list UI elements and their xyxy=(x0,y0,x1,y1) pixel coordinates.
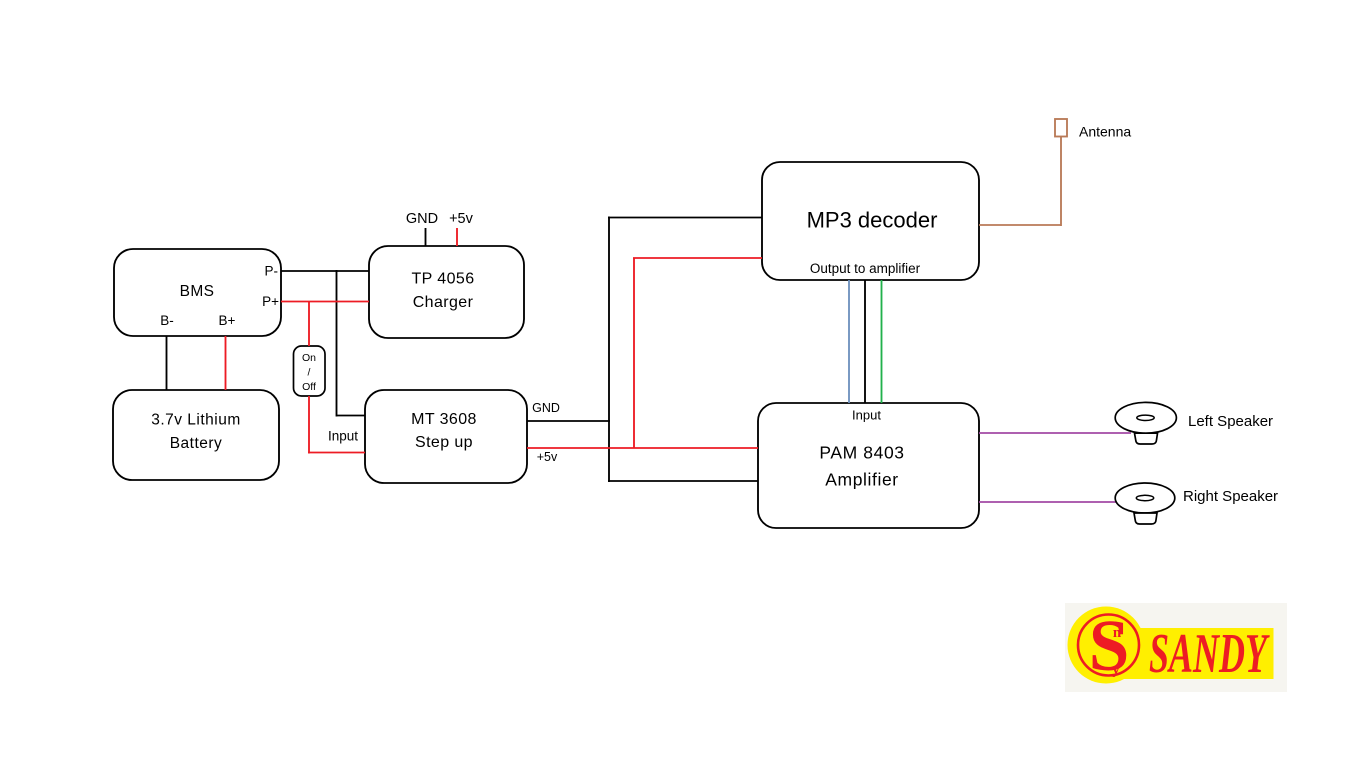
wire P- branch into MT3608 xyxy=(337,415,366,417)
svg-text:GND: GND xyxy=(406,211,438,227)
wire GND vertical bus xyxy=(608,217,610,483)
wire P- : BMS to TP4056 xyxy=(281,270,369,272)
svg-text:MT 3608: MT 3608 xyxy=(411,411,477,428)
svg-text:B-: B- xyxy=(160,313,174,328)
svg-text:3.7v Lithium: 3.7v Lithium xyxy=(151,412,241,429)
svg-text:Input: Input xyxy=(328,429,358,444)
block 3.7v Lithium Battery xyxy=(113,390,279,480)
wire antenna horizontal (brown) xyxy=(979,224,1061,226)
svg-text:Amplifier: Amplifier xyxy=(825,470,898,490)
svg-text:n: n xyxy=(1113,625,1122,641)
switch On/Off SW1 xyxy=(294,346,326,396)
wire +5v vertical branch (red) xyxy=(633,258,635,449)
wire P+ branch down to switch xyxy=(308,302,310,347)
svg-text:+5v: +5v xyxy=(537,450,558,464)
svg-text:MP3 decoder: MP3 decoder xyxy=(807,208,938,233)
wire B- : BMS to battery xyxy=(166,336,168,390)
wire to right speaker (purple) xyxy=(979,501,1131,503)
wire B+ : BMS to battery (red) xyxy=(225,336,227,390)
svg-text:GND: GND xyxy=(532,401,560,415)
svg-text:Off: Off xyxy=(302,381,316,393)
wire P- branch vertical down xyxy=(336,270,338,417)
wire GND: MT3608 to vertical bus xyxy=(527,420,610,422)
wire GND bus to MP3 decoder xyxy=(608,217,762,219)
svg-text:Charger: Charger xyxy=(413,294,474,311)
svg-text:Step up: Step up xyxy=(415,434,473,451)
svg-text:B+: B+ xyxy=(219,313,236,328)
block TP 4056 Charger U2 xyxy=(369,246,524,338)
wire switch to MT3608 input vertical xyxy=(308,396,310,454)
block MP3 decoder U4 xyxy=(762,162,979,280)
block PAM 8403 Amplifier U5 xyxy=(758,403,979,528)
svg-text:TP 4056: TP 4056 xyxy=(412,271,475,288)
wire to left speaker (purple) xyxy=(979,432,1131,434)
wire antenna vertical (brown) xyxy=(1060,136,1062,226)
right speaker LS2 xyxy=(1115,483,1175,524)
svg-text:Right Speaker: Right Speaker xyxy=(1183,488,1278,505)
svg-text:Antenna: Antenna xyxy=(1079,124,1131,140)
wire +5v stub into TP4056 xyxy=(456,228,458,246)
block MT 3608 Step up U3 xyxy=(365,390,527,483)
wire +5v: MT3608 to PAM8403 (red) xyxy=(527,447,758,449)
svg-text:/: / xyxy=(308,367,311,379)
wire P+ : BMS to TP4056 (red) xyxy=(281,301,369,303)
wire switch to MT3608 input horizontal xyxy=(308,452,365,454)
svg-text:P-: P- xyxy=(265,264,279,279)
wire GND bus to PAM8403 xyxy=(608,480,758,482)
svg-text:S: S xyxy=(1089,605,1130,686)
svg-text:P+: P+ xyxy=(262,294,279,309)
svg-text:+5v: +5v xyxy=(449,211,474,227)
wire audio ground (black) MP3 to PAM xyxy=(864,280,866,403)
left speaker LS1 xyxy=(1115,402,1176,444)
wire audio left channel (blue) MP3 to PAM xyxy=(848,280,850,403)
svg-text:Output to amplifier: Output to amplifier xyxy=(810,261,921,276)
svg-text:BMS: BMS xyxy=(180,283,215,300)
wire audio right channel (green) MP3 to PAM xyxy=(881,280,883,403)
svg-text:Input: Input xyxy=(852,408,881,423)
svg-text:Left Speaker: Left Speaker xyxy=(1188,413,1273,430)
svg-text:On: On xyxy=(302,352,316,364)
wire +5v branch to MP3 decoder (red) xyxy=(633,257,762,259)
svg-text:y: y xyxy=(1112,662,1120,678)
svg-text:SANDY: SANDY xyxy=(1149,623,1270,685)
SANDY logo xyxy=(1065,603,1287,692)
antenna symbol ANT1 xyxy=(1055,119,1067,137)
svg-text:Battery: Battery xyxy=(170,435,223,452)
svg-text:PAM 8403: PAM 8403 xyxy=(819,443,904,463)
wire GND stub into TP4056 xyxy=(425,228,427,246)
block BMS xyxy=(114,249,281,336)
